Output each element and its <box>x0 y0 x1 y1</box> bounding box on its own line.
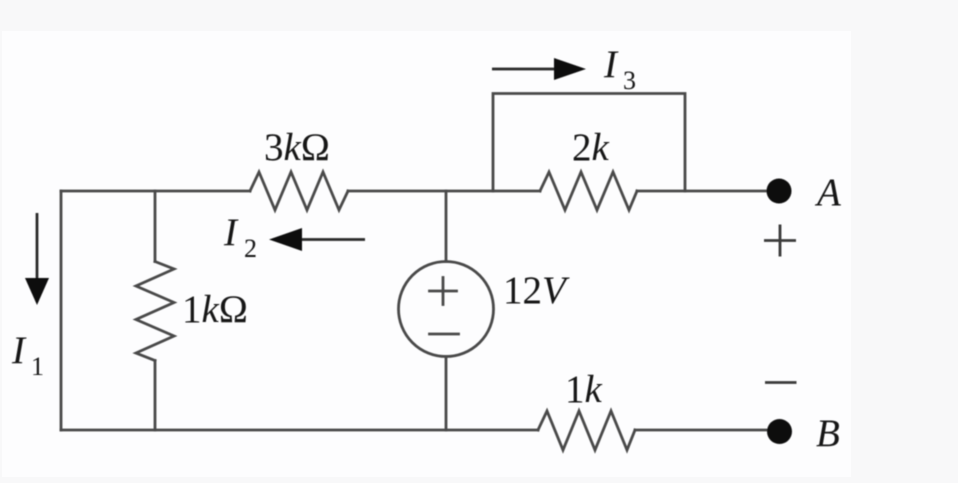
minus sign at terminal B <box>765 381 797 384</box>
svg-text:3kΩ: 3kΩ <box>264 126 330 169</box>
wire top-left horizontal (node to 3k resistor) <box>61 190 250 193</box>
svg-text:1: 1 <box>31 352 44 381</box>
svg-text:I: I <box>603 43 619 86</box>
plus sign at terminal A <box>764 225 796 257</box>
voltage source V1 12V circle <box>399 262 494 357</box>
resistor R 1kOhm vertical zigzag <box>136 262 174 361</box>
svg-text:3: 3 <box>623 66 636 95</box>
svg-text:I: I <box>11 329 27 372</box>
svg-text:2: 2 <box>244 234 257 263</box>
wire shorting loop around 2k <box>493 94 685 192</box>
svg-text:12V: 12V <box>503 269 570 312</box>
wire bottom left horizontal <box>61 429 538 432</box>
wire top right to node A <box>637 190 779 193</box>
svg-text:I: I <box>223 211 239 254</box>
wire source branch upper <box>445 191 448 262</box>
node B terminal dot <box>767 419 792 444</box>
svg-text:A: A <box>814 171 841 214</box>
voltage source plus sign <box>430 278 457 305</box>
wire 1kOhm branch lower <box>154 361 157 431</box>
current arrow I2 <box>269 228 365 251</box>
current arrow I1 <box>25 213 49 305</box>
resistor R 2k zigzag <box>540 172 637 210</box>
resistor R 3k zigzag <box>250 172 348 210</box>
current arrow I3 <box>492 58 586 80</box>
wire left vertical branch <box>60 191 63 430</box>
wire bottom right to node B <box>635 429 779 432</box>
wire source branch lower <box>445 357 448 431</box>
svg-text:1k: 1k <box>565 368 603 411</box>
wire 1kOhm branch upper <box>154 191 157 262</box>
resistor R 1k zigzag bottom <box>538 411 635 450</box>
svg-text:2k: 2k <box>572 126 610 169</box>
wire top middle horizontal <box>348 190 540 193</box>
svg-text:1kΩ: 1kΩ <box>182 288 248 331</box>
voltage source minus sign <box>430 333 459 336</box>
node A terminal dot <box>767 179 792 204</box>
svg-text:B: B <box>816 412 840 455</box>
